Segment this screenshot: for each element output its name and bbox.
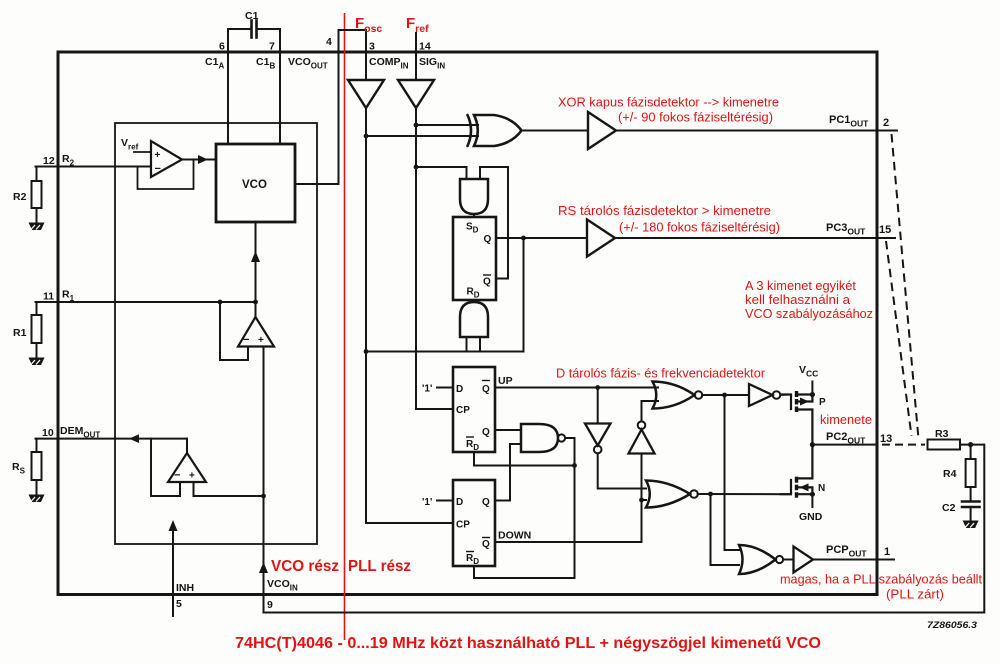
svg-text:11: 11 [43, 291, 54, 303]
svg-text:Q: Q [482, 427, 490, 438]
svg-text:R1: R1 [13, 327, 27, 339]
node PCP upper branch [722, 393, 727, 398]
svg-text:UP: UP [498, 375, 513, 387]
overline U6 Qbar [482, 380, 490, 382]
wire U5 plus input to VCOin [194, 482, 264, 496]
wire to GND [811, 494, 813, 508]
wire loop filter return [264, 445, 985, 613]
resistor R4 stub top [970, 445, 972, 459]
pin 11 wire [36, 301, 256, 303]
svg-text:−: − [243, 334, 249, 346]
buffer PCP triangle [794, 547, 814, 573]
wire UP to inverter U9 [597, 388, 599, 424]
svg-text:Q: Q [483, 276, 491, 287]
node XOR upper branch [414, 123, 419, 128]
op-amp U5 demodulator triangle [168, 453, 206, 482]
wire U7 RD reset [474, 566, 575, 578]
svg-text:+: + [258, 335, 264, 346]
wire U7 Q to NAND [495, 444, 521, 501]
node VCC junction [810, 392, 815, 397]
wire Vref to plus input [134, 151, 151, 153]
svg-text:D: D [456, 384, 463, 395]
transistor Q2 source lead [797, 493, 813, 495]
svg-text:10: 10 [42, 427, 54, 439]
node NAND reset junction [572, 463, 577, 468]
input buffer SIGin triangle [398, 80, 434, 108]
capacitor C1 plates [252, 21, 257, 38]
svg-text:15: 15 [879, 224, 891, 236]
wire NAND output vertical [574, 438, 576, 578]
wire set gate to RS latch [473, 214, 475, 217]
NOR gate U14 bubble [776, 556, 783, 563]
svg-text:RS tárolós fázisdetektor > k: RS tárolós fázisdetektor > kimenetre [558, 204, 771, 218]
ground under RS [29, 495, 45, 503]
wire R4 to C2 [970, 487, 972, 501]
svg-text:−: − [155, 163, 161, 175]
resistor RS body [32, 452, 42, 480]
svg-text:14: 14 [419, 41, 431, 53]
resistor R2 stub bottom [36, 208, 38, 222]
node XOR lower branch [364, 134, 369, 139]
wire VCO output [295, 183, 339, 185]
NAND gate U8 bubble [558, 434, 565, 441]
transistor Q2 N-MOS gate bar [781, 480, 792, 494]
svg-text:R2: R2 [13, 191, 27, 203]
wire COMP vertical [366, 108, 453, 523]
svg-text:magas, ha a PLL szabályozás be: magas, ha a PLL szabályozás beállt [780, 573, 983, 587]
overline RS latch Qbar [483, 274, 491, 276]
svg-text:−: − [174, 470, 180, 482]
wire PCP to pin1 [813, 559, 877, 561]
wire U3 feedback loop [138, 160, 194, 190]
node Q feedback branch [521, 236, 526, 241]
inverter U10 triangle [629, 430, 655, 454]
wire U11 output [702, 394, 749, 396]
dashed wire pin13 to R3 [882, 444, 925, 446]
capacitor C1 jumper wire pin7 side [258, 29, 280, 51]
node Q2 source junction [810, 492, 815, 497]
svg-text:'1': '1' [422, 384, 432, 395]
XOR gate U1 body [474, 115, 522, 146]
arrow on VCOin line [259, 562, 268, 573]
wire C2 to ground [970, 507, 972, 520]
XOR gate input arc [468, 115, 472, 146]
wire DOWN from U7 Qbar [495, 500, 642, 542]
wire PC3 output to pin15 [615, 237, 877, 239]
svg-text:D tárolós fázis- és frekvencia: D tárolós fázis- és frekvenciadetektor [556, 367, 765, 381]
ground under R1 [29, 358, 45, 366]
AND gate RS reset [460, 302, 488, 337]
svg-text:C2: C2 [942, 502, 956, 514]
RS latch U2 box [453, 217, 496, 300]
svg-text:Q: Q [482, 539, 490, 550]
wire COMP to RS reset gate [366, 351, 524, 353]
svg-text:1: 1 [884, 546, 890, 558]
resistor R1 stub top [36, 302, 38, 315]
svg-text:R3: R3 [935, 428, 949, 440]
wire U4 minus input loop [220, 302, 248, 360]
resistor R1 body [32, 315, 42, 343]
overline U7 Qbar [482, 537, 490, 539]
wire U13 output to N gate [698, 493, 791, 495]
node RS set branch [414, 165, 419, 170]
svg-text:PLL rész: PLL rész [348, 558, 411, 575]
arrow Q2 bulk [800, 483, 809, 491]
svg-text:C1: C1 [245, 10, 259, 22]
resistor R2 body [32, 181, 42, 208]
red divider line [344, 13, 346, 640]
dashed wire from pin2 [892, 134, 919, 439]
node DOWN junction [639, 498, 644, 503]
wire pin6 to VCO [227, 51, 229, 144]
wire SIG to RS set gate [416, 167, 467, 179]
svg-text:INH: INH [176, 582, 194, 594]
overline U6 RD [466, 436, 474, 438]
wire U12 to P gate [780, 394, 791, 397]
wire PC1 output to pin2 [616, 130, 877, 132]
svg-text:Q: Q [482, 384, 490, 395]
node R1 wire junction left [218, 300, 223, 305]
wire reset gate to RS latch [473, 300, 475, 302]
input buffer COMPin triangle [348, 80, 384, 108]
wire INH vertical [172, 530, 174, 617]
wire R3 to corner [960, 444, 984, 446]
svg-text:9: 9 [267, 599, 273, 611]
node R4 branch [968, 442, 973, 447]
wire Qbar feedback to RS set gate [480, 167, 508, 279]
svg-text:(+/- 180 fokos fáziseltérésig): (+/- 180 fokos fáziseltérésig) [619, 221, 780, 235]
svg-text:VCO szabályozásához: VCO szabályozásához [745, 307, 873, 321]
wire U3 output to VCO [182, 159, 216, 161]
capacitor C2 plates [962, 502, 980, 508]
OR gate U13 bubble [690, 490, 698, 498]
transistor Q2 bulk lead [797, 487, 813, 494]
op-amp U4 triangle [238, 317, 274, 347]
arrow on DEMout wire [129, 434, 139, 443]
resistor RS stub bottom [36, 480, 38, 494]
inverter U9 triangle [585, 424, 611, 446]
svg-text:'1': '1' [422, 497, 432, 508]
transistor Q1 channel segments [795, 391, 798, 412]
svg-text:R4: R4 [943, 468, 957, 480]
svg-text:kimenete: kimenete [820, 413, 872, 427]
wire UP from U6 Qbar [495, 387, 658, 389]
svg-text:7Z86056.3: 7Z86056.3 [927, 620, 978, 631]
transistor Q1 source lead [797, 393, 813, 395]
OR gate U11 bubble [695, 391, 703, 399]
wire U7 D input stub [437, 500, 453, 502]
svg-text:CP: CP [456, 520, 470, 531]
wire U6 D input stub [437, 387, 453, 389]
svg-text:P: P [819, 397, 826, 408]
resistor R2 stub top [36, 167, 38, 182]
resistor R3 body [928, 440, 961, 450]
resistor RS stub top [36, 439, 38, 452]
svg-text:+: + [189, 471, 195, 482]
OR gate U11 body [653, 382, 695, 409]
transistor Q2 channel segments [795, 477, 798, 498]
inverter U10 bubble [638, 421, 646, 429]
wire to NOR upper input [725, 395, 740, 550]
wire U5 output up [186, 439, 188, 453]
svg-text:N: N [818, 483, 825, 494]
pin 10 wire [36, 438, 188, 440]
resistor R1 stub bottom [36, 343, 38, 357]
node UP branch [595, 385, 600, 390]
NOR gate U14 body [739, 545, 776, 574]
transistor Q1 P-MOS gate bar [781, 395, 792, 410]
wire XOR output to PC1 buffer [522, 130, 589, 132]
svg-text:6: 6 [219, 41, 225, 53]
node PC2 junction [810, 442, 815, 447]
svg-text:VCO rész: VCO rész [271, 558, 339, 575]
wire XOR upper input [416, 124, 478, 126]
chip outline [58, 52, 877, 595]
wire NAND output stub [565, 437, 574, 439]
wire to NOR lower input [711, 494, 740, 565]
svg-text:13: 13 [880, 433, 892, 445]
resistor R4 body [966, 459, 976, 487]
wire U6 Q to NAND [495, 429, 521, 431]
jumper wire pin4 to pin3 [339, 30, 367, 51]
svg-text:3: 3 [369, 41, 375, 53]
wire DOWN to U10 input [641, 454, 643, 501]
wire reset gate input stub left [466, 337, 468, 352]
NAND gate U8 body [521, 424, 558, 452]
svg-text:kell felhasználni a: kell felhasználni a [745, 293, 850, 307]
wire SIG vertical [416, 108, 453, 409]
ground under R2 [29, 223, 45, 231]
wire XOR lower input [366, 135, 478, 137]
wire pin4 VCOout vertical [338, 51, 340, 184]
buffer PC1 triangle [588, 112, 616, 149]
svg-text:(PLL zárt): (PLL zárt) [886, 588, 944, 602]
node R1 wire junction right [253, 300, 258, 305]
svg-text:74HC(T)4046 - 0...19 MHz közt: 74HC(T)4046 - 0...19 MHz közt használhat… [235, 635, 821, 652]
wire U6 RD reset [474, 452, 575, 466]
D flip-flop U7 box [453, 480, 495, 566]
svg-text:Q: Q [484, 234, 492, 245]
pin 2 stub [877, 130, 897, 132]
inverter U12 triangle [749, 384, 773, 406]
wire pin14 entry [415, 33, 417, 80]
svg-text:7: 7 [269, 41, 275, 53]
wire U14 to buffer [783, 559, 793, 561]
svg-text:Q: Q [482, 497, 490, 508]
VCO section inner box [115, 123, 317, 544]
svg-text:D: D [456, 497, 463, 508]
overline U7 RD [466, 551, 474, 553]
dashed wire from pin15 [886, 241, 912, 436]
svg-text:+: + [155, 150, 161, 161]
svg-text:CP: CP [456, 405, 470, 416]
D flip-flop U6 box [453, 367, 495, 452]
node VCOin plus junction [261, 494, 266, 499]
svg-text:5: 5 [176, 598, 182, 610]
transistor Q1 drain lead [797, 410, 813, 445]
transistor Q2 drain lead [797, 445, 813, 479]
OR gate U13 body [646, 481, 690, 508]
wire Q feedback vertical [523, 238, 525, 352]
transistor Q1 bulk lead [797, 395, 813, 402]
capacitor C1 jumper wire pin6 side [228, 29, 250, 51]
arrow INH [169, 520, 178, 531]
wire VCOin vertical [263, 347, 265, 613]
wire VCC [811, 381, 813, 395]
wire DOWN to OR2 input [642, 499, 647, 501]
inverter U12 bubble [773, 391, 781, 399]
wire reset gate input stub right [479, 337, 481, 352]
pin 12 wire [36, 166, 152, 168]
wire PC2 to pin13 [812, 444, 877, 446]
svg-text:XOR kapus fázisdetektor --> k: XOR kapus fázisdetektor --> kimenetre [558, 96, 779, 110]
svg-text:GND: GND [799, 511, 823, 523]
VCO block [216, 144, 295, 222]
wire RS Q output [496, 237, 587, 239]
arrow into VCO bottom [251, 251, 260, 262]
AND gate RS set [460, 179, 488, 214]
wire U5 feedback loop [151, 439, 180, 496]
wire pin7 to VCO [279, 51, 281, 144]
svg-text:VCO: VCO [242, 179, 267, 191]
pin 1 stub [877, 559, 895, 561]
inverter U9 bubble [594, 446, 602, 454]
svg-text:4: 4 [326, 36, 332, 48]
svg-text:(+/- 90 fokos fáziseltérésig): (+/- 90 fokos fáziseltérésig) [618, 111, 773, 125]
pin 15 stub [877, 237, 895, 239]
op-amp U3 Vref buffer [151, 141, 182, 177]
svg-text:A 3 kimenet egyikét: A 3 kimenet egyikét [745, 279, 857, 293]
wire U9 output to OR2 [598, 454, 646, 489]
wire op-amp U4 output to VCO [255, 222, 257, 317]
buffer PC3 triangle [587, 220, 615, 257]
svg-text:2: 2 [883, 117, 889, 129]
node PCP lower branch [708, 492, 713, 497]
ground under C2 [963, 521, 979, 529]
wire pin3 entry [365, 51, 367, 80]
arrow on U3 output [198, 155, 208, 164]
wire U10 output to OR1 [642, 401, 659, 421]
node COMP reset branch [364, 349, 369, 354]
svg-text:12: 12 [43, 155, 55, 167]
arrow Q1 bulk [800, 398, 809, 406]
svg-text:DOWN: DOWN [498, 530, 531, 542]
